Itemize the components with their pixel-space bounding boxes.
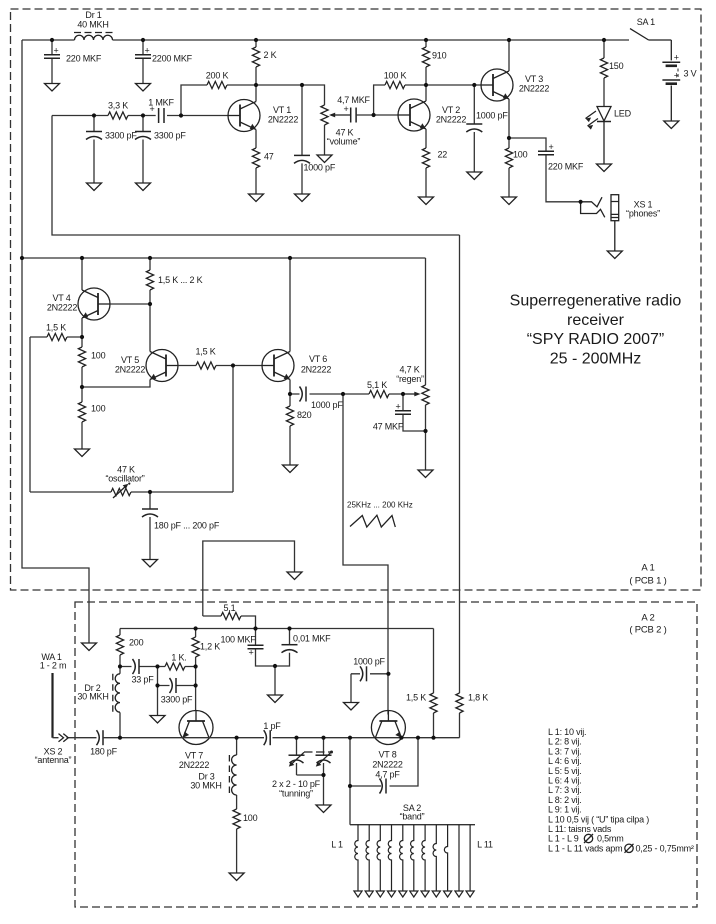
ground (XS1) [607, 251, 622, 259]
capacitor 1MKF [148, 98, 174, 124]
capacitor 3300pF (first) [86, 116, 137, 184]
potentiometer 47K volume [321, 105, 360, 155]
capacitor 1000pF (VT8 base) [351, 657, 388, 703]
wire caps to ground [274, 666, 276, 695]
ground (1000pF VT8) [344, 703, 359, 711]
svg-text:L 5: 5 vij.: L 5: 5 vij. [548, 766, 581, 776]
svg-text:33 pF: 33 pF [131, 675, 154, 685]
coil L7 [422, 825, 425, 891]
wire x30 to oscillator line [29, 337, 31, 492]
transistor VT2 2N2222 [398, 99, 430, 131]
svg-text:200 K: 200 K [206, 71, 229, 81]
svg-text:L 9: 1 vij.: L 9: 1 vij. [548, 805, 581, 815]
svg-text:2N2222: 2N2222 [179, 760, 210, 770]
svg-text:3300 pF: 3300 pF [154, 131, 186, 141]
svg-text:+: + [54, 46, 59, 56]
svg-text:Superregenerative radio: Superregenerative radio [510, 293, 682, 310]
capacitor 180pF...200pF [142, 492, 220, 560]
svg-text:4,7 K: 4,7 K [399, 365, 419, 375]
capacitor 100MKF [220, 629, 275, 667]
ground (tuning) [316, 805, 331, 813]
svg-text:4,7 MKF: 4,7 MKF [337, 95, 370, 105]
svg-text:“oscillator”: “oscillator” [105, 474, 144, 484]
coil L5 [400, 825, 403, 891]
svg-text:L 2: 8 vij.: L 2: 8 vij. [548, 737, 581, 747]
svg-text:5,1 K: 5,1 K [367, 380, 387, 390]
resistor 1,8K [456, 693, 488, 738]
svg-text:2N2222: 2N2222 [372, 760, 403, 770]
battery 3V [662, 40, 680, 121]
ground (100 Dr3) [229, 873, 244, 881]
resistor 910 [422, 40, 446, 85]
svg-text:47 MKF: 47 MKF [373, 422, 404, 432]
resistor 22 [422, 148, 447, 197]
resistor 3,3K [108, 101, 128, 120]
wire top supply rail y40 [22, 39, 629, 41]
svg-text:3 V: 3 V [684, 69, 697, 79]
ground (main left rail, in A2) [82, 643, 97, 651]
ground (volume pot) [317, 155, 332, 163]
svg-text:2 K: 2 K [264, 50, 277, 60]
svg-text:1 K.: 1 K. [171, 653, 186, 663]
svg-text:A 1: A 1 [641, 563, 654, 574]
svg-text:220 MKF: 220 MKF [548, 162, 584, 172]
svg-text:200: 200 [129, 638, 144, 648]
svg-text:0,01 MKF: 0,01 MKF [293, 634, 331, 644]
svg-text:“antenna”: “antenna” [35, 755, 72, 765]
svg-text:100: 100 [91, 351, 106, 361]
svg-text:receiver: receiver [567, 312, 625, 329]
svg-text:L 8: 2 vij.: L 8: 2 vij. [548, 795, 581, 805]
svg-text:910: 910 [432, 51, 447, 61]
resistor 1,5K...2K [146, 258, 202, 304]
svg-text:3,3 K: 3,3 K [108, 101, 128, 111]
transistor VT1 2N2222 [228, 100, 260, 132]
wire y235 link [52, 116, 460, 236]
resistor 5,1 [203, 603, 256, 629]
svg-text:+: + [150, 104, 155, 114]
svg-text:VT 2: VT 2 [442, 105, 460, 115]
transistor VT6 2N2222 [262, 350, 294, 382]
choke Dr2 30MKH [113, 667, 120, 738]
capacitor 1pF [263, 721, 281, 745]
coil L6 [411, 825, 414, 891]
node A1 mid dots [20, 256, 24, 260]
svg-text:“band”: “band” [400, 812, 425, 822]
capacitor 33pF [120, 659, 158, 685]
svg-text:0,25 - 0,75mm²: 0,25 - 0,75mm² [636, 843, 694, 853]
resistor 1,5K (A2) [406, 629, 437, 738]
svg-text:100 MKF: 100 MKF [220, 635, 256, 645]
resistor 100K [374, 71, 426, 116]
svg-text:+: + [145, 46, 150, 56]
svg-text:+: + [674, 71, 679, 81]
coil L10 [458, 825, 460, 891]
svg-text:L 4: 6 vij.: L 4: 6 vij. [548, 756, 581, 766]
svg-text:220 MKF: 220 MKF [66, 54, 102, 64]
svg-text:30 MKH: 30 MKH [190, 781, 221, 791]
wire VT3 collector [508, 40, 510, 71]
wire A2 supply rail y628.5 [120, 628, 434, 630]
transistor VT4 2N2222 (mirrored) [78, 288, 110, 320]
wire VT1 collector [255, 85, 257, 102]
resistor 100 (Dr3) [233, 809, 258, 873]
ground (100MKF/0,01MKF) [268, 695, 283, 703]
svg-text:( PCB 2 ): ( PCB 2 ) [629, 625, 666, 636]
resistor 100 (VT4) [78, 337, 105, 387]
resistor 47 [252, 148, 273, 194]
svg-text:+: + [549, 142, 554, 152]
svg-text:100: 100 [91, 404, 106, 414]
svg-text:L 1: 10 vij.: L 1: 10 vij. [548, 727, 586, 737]
svg-text:1000 pF: 1000 pF [353, 657, 385, 667]
svg-text:30 MKH: 30 MKH [77, 692, 108, 702]
coil L1 [355, 825, 358, 891]
svg-text:L 1 - L 9: L 1 - L 9 [548, 834, 579, 844]
coil L3 [377, 825, 380, 891]
resistor 1,5K (VT4 emitter) [30, 323, 82, 341]
transistor VT3 2N2222 [481, 69, 513, 101]
wire VT6 emitter [289, 380, 291, 395]
svg-text:47: 47 [264, 152, 274, 162]
resistor 5,1K [343, 380, 403, 398]
wire A2 main rail y737.7 [120, 737, 460, 739]
svg-text:2N2222: 2N2222 [301, 365, 332, 375]
svg-text:VT 1: VT 1 [273, 105, 291, 115]
variable capacitor tuning 1 [289, 738, 305, 775]
coil L4 [388, 825, 391, 891]
antenna WA1 [40, 652, 67, 738]
capacitor 220MKF [44, 40, 102, 84]
capacitor 4,7pF [350, 738, 418, 825]
svg-text:“SPY RADIO 2007”: “SPY RADIO 2007” [527, 331, 665, 348]
ground (battery) [664, 121, 679, 129]
svg-text:+: + [674, 53, 679, 63]
wire VT4 base [110, 303, 150, 305]
wire VT1 emitter [255, 130, 257, 149]
svg-text:“regen”: “regen” [396, 374, 424, 384]
svg-text:1,8 K: 1,8 K [468, 693, 488, 703]
svg-text:VT 5: VT 5 [121, 355, 139, 365]
wire second rail y258 [22, 257, 426, 259]
ground (47) [249, 194, 264, 202]
capacitor 47MKF [373, 394, 426, 432]
wire VT6 collector [289, 258, 291, 352]
wire VT5 collector [149, 304, 151, 352]
diameter symbol (line 12) [584, 834, 593, 843]
svg-text:1,2 K: 1,2 K [200, 642, 220, 652]
svg-text:L 7: 3 vij.: L 7: 3 vij. [548, 785, 581, 795]
sawtooth annotation 25KHz-200KHz [347, 501, 413, 528]
resistor 1K [158, 653, 196, 671]
svg-text:100: 100 [513, 150, 528, 160]
wire left supply rail x22 down and jog to ground [22, 40, 89, 643]
svg-text:820: 820 [297, 410, 312, 420]
svg-text:100: 100 [243, 813, 258, 823]
ground (100 lower) [75, 449, 90, 457]
transistor VT7 2N2222 (down-facing) [179, 711, 213, 745]
wire VT7 base drop [195, 667, 197, 711]
capacitor 2200MKF [135, 40, 193, 84]
LED [586, 107, 612, 165]
capacitor 220MKF (phones) [509, 138, 584, 202]
svg-text:5,1: 5,1 [224, 603, 236, 613]
svg-text:4,7 pF: 4,7 pF [375, 770, 400, 780]
svg-text:1 - 2 m: 1 - 2 m [40, 661, 67, 671]
ground (100 VT3) [502, 197, 517, 205]
svg-text:L 3: 7 vij.: L 3: 7 vij. [548, 746, 581, 756]
wire VT3 base [426, 84, 481, 86]
coil L9 [444, 825, 447, 891]
svg-text:180 pF: 180 pF [90, 747, 118, 757]
svg-text:“volume”: “volume” [327, 137, 361, 147]
svg-text:180 pF ... 200 pF: 180 pF ... 200 pF [154, 521, 220, 531]
svg-text:L 11: taisns vads: L 11: taisns vads [548, 824, 612, 834]
resistor 200K [181, 71, 256, 116]
svg-text:L 6: 4 vij.: L 6: 4 vij. [548, 776, 581, 786]
grounds (coil bank) [354, 891, 474, 897]
wire base row y115.5 [52, 115, 228, 117]
title text [510, 293, 682, 368]
resistor 150 [600, 40, 623, 107]
choke Dr3 30MKH [229, 738, 236, 809]
svg-text:Dr 1: Dr 1 [85, 10, 101, 20]
svg-text:0,5mm: 0,5mm [597, 834, 624, 844]
ground (1000pF VT1) [295, 194, 310, 202]
svg-text:2200 MKF: 2200 MKF [152, 54, 193, 64]
svg-text:2N2222: 2N2222 [519, 84, 550, 94]
ground (180pF) [143, 560, 158, 568]
ground (2200MKF) [136, 84, 151, 92]
svg-text:150: 150 [609, 61, 624, 71]
coil bank L1-L11 [355, 825, 470, 891]
svg-text:22: 22 [438, 150, 448, 160]
resistor 2K [252, 40, 276, 85]
svg-text:VT 3: VT 3 [525, 74, 543, 84]
PCB2 dashed border A2 [75, 602, 697, 907]
svg-text:1,5 K: 1,5 K [406, 693, 426, 703]
wire VT5 emitter row [82, 380, 150, 388]
transistor VT5 2N2222 (mirrored) [146, 350, 178, 382]
ground (3300pF first) [87, 183, 102, 191]
svg-text:VT 8: VT 8 [378, 750, 396, 760]
wire VT4 emitter [81, 318, 83, 337]
resistor 200 [116, 629, 143, 667]
svg-text:1000 pF: 1000 pF [304, 163, 336, 173]
svg-text:25KHz ... 200 KHz: 25KHz ... 200 KHz [347, 501, 413, 510]
resistor 1,2K [192, 629, 220, 667]
resistor 100 (VT3 emitter) [505, 138, 527, 197]
ground (1000pF VT3) [467, 172, 482, 180]
svg-text:VT 6: VT 6 [309, 354, 327, 364]
svg-text:100 K: 100 K [384, 71, 407, 81]
svg-text:VT 4: VT 4 [52, 293, 70, 303]
svg-text:SA 1: SA 1 [637, 17, 655, 27]
svg-text:1000 pF: 1000 pF [476, 111, 508, 121]
node dots top area [50, 38, 54, 42]
svg-text:LED: LED [614, 109, 632, 119]
wire VT4 collector [81, 258, 83, 290]
resistor 100 (lower) [78, 387, 105, 449]
svg-text:1,5 K: 1,5 K [46, 323, 66, 333]
potentiometer 4,7K regen [396, 365, 429, 432]
svg-text:+: + [344, 104, 349, 114]
wire x459.5 long drop to A2 [459, 235, 461, 693]
switch SA2 band bus [350, 824, 475, 826]
wire VT3 emitter [508, 99, 510, 138]
wire L11 [469, 825, 471, 891]
svg-text:VT 7: VT 7 [185, 751, 203, 761]
wire quench ground link [203, 541, 295, 616]
svg-text:2N2222: 2N2222 [436, 115, 467, 125]
wire regen pot to ground [425, 431, 427, 470]
ground (220MKF) [45, 84, 60, 92]
svg-text:L 1 - L 11 vads apm: L 1 - L 11 vads apm [548, 843, 622, 853]
wire tuning ground [323, 775, 325, 805]
switch SA1 [630, 29, 671, 40]
svg-text:A 2: A 2 [641, 613, 654, 624]
ground (quench link) [287, 572, 302, 580]
wire VT2 collector [425, 85, 427, 101]
svg-text:3300 pF: 3300 pF [161, 695, 193, 705]
coil L2 [366, 825, 369, 891]
node A2 dots [194, 626, 198, 630]
wire VT2 emitter [425, 129, 427, 148]
ground (3300pF second) [136, 183, 151, 191]
ground (3300pF A2) [150, 716, 165, 724]
capacitor 4,7MKF [337, 95, 398, 123]
resistor 820 [286, 394, 311, 465]
choke Dr1 40MKH [74, 33, 113, 41]
capacitor 1000pF (VT1 collector) [294, 85, 336, 194]
resistor 1,5K (VT5 base) [178, 347, 233, 370]
ground (22) [419, 197, 434, 205]
svg-text:1,5 K ... 2 K: 1,5 K ... 2 K [158, 275, 203, 285]
svg-text:2 x 2 - 10 pF: 2 x 2 - 10 pF [272, 779, 321, 789]
svg-text:L 11: L 11 [477, 840, 493, 850]
coil L8 [433, 825, 436, 891]
variable capacitor tuning 2 [297, 738, 332, 775]
connector XS1 phones [581, 195, 619, 251]
svg-text:3300 pF: 3300 pF [105, 131, 137, 141]
wire y85 to volume pot [256, 85, 325, 105]
capacitor 1000pF (VT6 out) [290, 387, 343, 411]
potentiometer 47K oscillator [30, 465, 233, 499]
ground (LED) [597, 164, 612, 172]
capacitor 3300pF (A2) [158, 667, 196, 705]
wire quench drop x343 [343, 394, 388, 715]
ground (regen) [418, 470, 433, 478]
svg-text:40 MKH: 40 MKH [77, 20, 108, 30]
svg-text:2N2222: 2N2222 [47, 303, 78, 313]
wire x233 node to oscillator line [233, 366, 262, 493]
capacitor 0,01MKF [275, 629, 331, 667]
ground (820) [283, 465, 298, 473]
svg-text:2N2222: 2N2222 [268, 115, 299, 125]
ganged link (tuning caps) [304, 751, 333, 754]
wire regen feed x425.5 down [425, 258, 427, 385]
svg-text:25 - 200MHz: 25 - 200MHz [550, 350, 642, 367]
PCB1 dashed border A1 [11, 9, 702, 590]
connector XS2 antenna [53, 734, 97, 742]
wire 3300pF to ground [157, 686, 159, 716]
svg-text:( PCB 1 ): ( PCB 1 ) [629, 576, 666, 587]
diameter symbol (line 13) [625, 844, 634, 853]
transistor VT8 2N2222 (down-facing mirrored) [371, 711, 405, 745]
capacitor 180pF (antenna) [90, 730, 120, 756]
capacitor 3300pF (second) [135, 116, 186, 184]
svg-text:“tunning”: “tunning” [279, 789, 313, 799]
svg-text:1,5 K: 1,5 K [195, 347, 215, 357]
svg-text:+: + [248, 648, 253, 658]
MAIN WIRES A1 [22, 40, 629, 693]
capacitor 1000pF (VT3 base) [466, 85, 508, 172]
svg-text:1 pF: 1 pF [263, 721, 281, 731]
svg-text:1000 pF: 1000 pF [311, 400, 343, 410]
legend text L1-L11 [548, 727, 694, 853]
svg-text:L 1: L 1 [331, 840, 343, 850]
svg-text:“phones”: “phones” [626, 209, 660, 219]
svg-text:2N2222: 2N2222 [115, 365, 146, 375]
svg-text:L 10 0,5 vij ( “U” tipa cilpa: L 10 0,5 vij ( “U” tipa cilpa ) [548, 814, 649, 824]
svg-text:+: + [395, 402, 400, 412]
